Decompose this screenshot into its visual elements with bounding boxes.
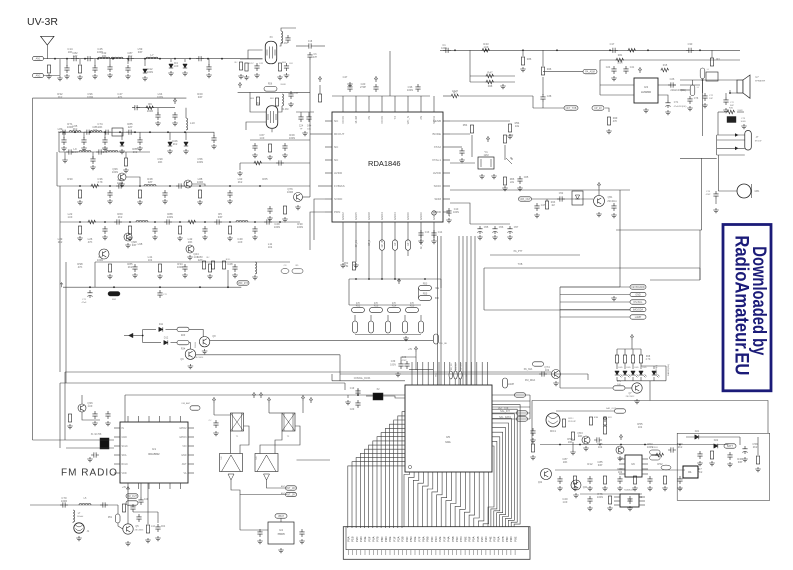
svg-text:VIO: VIO xyxy=(182,445,186,448)
svg-text:10K: 10K xyxy=(102,54,107,58)
svg-text:ANT: ANT xyxy=(182,463,187,466)
svg-text:B0_S1: B0_S1 xyxy=(451,363,453,370)
svg-text:SVDD: SVDD xyxy=(334,197,343,201)
svg-text:CCP#: CCP# xyxy=(380,116,384,124)
svg-text:21.4M: 21.4M xyxy=(282,108,289,111)
svg-text:2K2: 2K2 xyxy=(128,265,133,269)
svg-text:KEYBOARD: KEYBOARD xyxy=(631,286,645,289)
svg-text:102: 102 xyxy=(618,470,623,474)
svg-text:U5: U5 xyxy=(446,435,450,439)
svg-text:100R: 100R xyxy=(97,258,103,262)
svg-text:FM_ANT: FM_ANT xyxy=(182,402,191,405)
svg-text:33P: 33P xyxy=(218,215,223,219)
svg-text:47K: 47K xyxy=(88,240,93,244)
svg-text:C24: C24 xyxy=(299,126,304,128)
svg-text:ANT_1FO: ANT_1FO xyxy=(286,487,297,490)
svg-text:18.4M: 18.4M xyxy=(354,115,358,123)
svg-text:100N: 100N xyxy=(441,47,447,50)
svg-text:CP_2V: CP_2V xyxy=(594,107,602,110)
svg-text:1UF: 1UF xyxy=(68,215,73,219)
svg-text:R1B: R1B xyxy=(594,417,599,419)
svg-text:100N: 100N xyxy=(147,70,153,74)
svg-text:1UF: 1UF xyxy=(88,404,93,408)
svg-text:SDA: SDA xyxy=(122,454,127,457)
svg-text:270P: 270P xyxy=(360,85,366,89)
svg-text:XTA2: XTA2 xyxy=(434,145,442,149)
svg-text:1UF: 1UF xyxy=(174,64,179,68)
svg-text:R#57: R#57 xyxy=(248,63,254,65)
svg-text:100N: 100N xyxy=(274,225,280,229)
svg-text:PA_30A: PA_30A xyxy=(524,368,533,371)
svg-text:VBAT: VBAT xyxy=(278,515,285,518)
svg-text:L10: L10 xyxy=(190,121,195,125)
svg-text:S9014: S9014 xyxy=(195,341,197,348)
svg-text:2SC4111: 2SC4111 xyxy=(607,201,617,203)
svg-text:VET_TX#: VET_TX# xyxy=(498,407,509,410)
svg-text:FVBIAS: FVBIAS xyxy=(334,184,345,188)
svg-text:PEL_BK: PEL_BK xyxy=(439,343,448,345)
svg-text:CCP#: CCP# xyxy=(341,116,345,124)
svg-text:C13: C13 xyxy=(425,231,430,234)
svg-text:10P: 10P xyxy=(709,98,713,100)
svg-text:RDA1846: RDA1846 xyxy=(368,159,401,168)
svg-text:RCLK: RCLK xyxy=(122,463,129,466)
svg-text:SAL_DATA: SAL_DATA xyxy=(499,416,511,419)
svg-text:K1: K1 xyxy=(688,470,692,474)
svg-text:100K: 100K xyxy=(617,62,623,65)
svg-text:R51: R51 xyxy=(108,517,113,519)
svg-text:1.5k: 1.5k xyxy=(344,265,349,268)
svg-text:R46: R46 xyxy=(547,68,552,71)
svg-text:GND2: GND2 xyxy=(341,212,345,220)
svg-text:C20: C20 xyxy=(350,408,355,411)
svg-text:C65: C65 xyxy=(524,176,529,179)
svg-text:47K: 47K xyxy=(374,303,379,305)
svg-text:2N: 2N xyxy=(367,116,371,120)
svg-text:Q22: Q22 xyxy=(538,482,543,484)
svg-text:C64: C64 xyxy=(161,526,166,528)
svg-text:U7: U7 xyxy=(755,75,759,79)
svg-text:68K: 68K xyxy=(435,297,440,300)
svg-text:X1 32.768: X1 32.768 xyxy=(91,434,102,436)
svg-text:LED: LED xyxy=(634,367,639,369)
svg-text:2K2: 2K2 xyxy=(698,470,703,474)
svg-text:R7#: R7# xyxy=(617,381,622,383)
svg-text:100R: 100R xyxy=(87,95,93,99)
svg-text:LAMP: LAMP xyxy=(635,316,642,319)
svg-text:RADIO(GN): RADIO(GN) xyxy=(667,364,670,376)
svg-text:FM RADIO: FM RADIO xyxy=(61,468,118,479)
svg-text:102: 102 xyxy=(93,128,98,132)
svg-text:D22: D22 xyxy=(714,439,719,442)
svg-text:B1_S1: B1_S1 xyxy=(456,363,458,370)
svg-text:RadioAmateur.EU: RadioAmateur.EU xyxy=(731,235,752,375)
svg-text:102: 102 xyxy=(638,425,643,429)
svg-text:R8: R8 xyxy=(678,487,682,491)
svg-text:2K2: 2K2 xyxy=(58,95,63,99)
svg-text:100R: 100R xyxy=(177,265,183,269)
svg-text:R15: R15 xyxy=(663,64,668,67)
svg-text:100R: 100R xyxy=(287,190,293,194)
svg-text:2K2: 2K2 xyxy=(238,180,243,184)
svg-text:10K: 10K xyxy=(98,125,103,129)
svg-text:100R: 100R xyxy=(197,180,203,184)
svg-text:AVDD: AVDD xyxy=(334,171,343,175)
svg-text:2N: 2N xyxy=(419,116,423,120)
svg-text:GPIO3: GPIO3 xyxy=(179,436,187,439)
svg-text:GND: GND xyxy=(181,454,187,457)
svg-text:R53: R53 xyxy=(423,283,428,286)
svg-text:47K: 47K xyxy=(356,303,361,305)
svg-text:LED: LED xyxy=(642,367,647,369)
svg-text:100N: 100N xyxy=(167,215,173,219)
svg-text:GND5: GND5 xyxy=(354,212,358,220)
svg-text:SA1_OUT: SA1_OUT xyxy=(606,407,617,410)
svg-text:GND3: GND3 xyxy=(393,212,397,220)
svg-text:U3: U3 xyxy=(644,85,648,89)
svg-text:100N: 100N xyxy=(97,50,103,54)
svg-text:R12: R12 xyxy=(587,462,593,466)
svg-text:XTAL1: XTAL1 xyxy=(432,158,441,162)
svg-text:FM_OUT: FM_OUT xyxy=(127,495,137,498)
svg-text:21.4M: 21.4M xyxy=(281,42,288,45)
svg-text:R47: R47 xyxy=(487,71,493,75)
svg-text:33P: 33P xyxy=(738,460,743,464)
svg-text:12M: 12M xyxy=(483,153,488,157)
svg-text:U1: U1 xyxy=(152,447,156,451)
svg-text:BATT: BATT xyxy=(727,445,733,448)
svg-text:RDA5802: RDA5802 xyxy=(148,452,160,456)
svg-text:VDD: VDD xyxy=(122,472,127,475)
svg-text:SCLK: SCLK xyxy=(122,445,129,448)
svg-text:1UF: 1UF xyxy=(238,240,243,244)
svg-text:470P: 470P xyxy=(706,194,711,196)
svg-text:R21#: R21# xyxy=(568,418,574,420)
svg-text:P0E: P0E xyxy=(513,536,517,541)
svg-text:AVDD: AVDD xyxy=(433,171,442,175)
svg-text:22P: 22P xyxy=(128,125,133,129)
svg-text:R56: R56 xyxy=(268,84,273,86)
svg-text:TDA2822M: TDA2822M xyxy=(624,489,635,492)
svg-text:GND4: GND4 xyxy=(380,212,384,220)
svg-text:100uH: 100uH xyxy=(77,516,84,518)
svg-text:WC_N: WC_N xyxy=(406,116,410,124)
svg-text:+3V: +3V xyxy=(408,349,413,351)
svg-text:L7: L7 xyxy=(150,53,154,57)
svg-text:R65: R65 xyxy=(262,177,268,181)
svg-text:2K2: 2K2 xyxy=(678,445,683,449)
svg-text:PA_PTT: PA_PTT xyxy=(514,250,523,253)
svg-text:U6: U6 xyxy=(631,462,635,466)
svg-text:C18: C18 xyxy=(308,41,313,43)
svg-text:78M05: 78M05 xyxy=(277,533,285,536)
svg-text:Q21: Q21 xyxy=(583,486,588,489)
svg-text:10K: 10K xyxy=(578,434,583,438)
svg-text:R6: R6 xyxy=(148,102,152,106)
svg-text:102: 102 xyxy=(598,445,603,449)
svg-text:10K: 10K xyxy=(68,50,73,54)
svg-text:C24: C24 xyxy=(606,66,611,69)
svg-text:AN1: AN1 xyxy=(36,58,41,61)
svg-text:100R: 100R xyxy=(61,499,67,503)
svg-text:R48: R48 xyxy=(646,356,651,358)
svg-text:2K2: 2K2 xyxy=(133,150,138,154)
svg-text:22P: 22P xyxy=(148,180,153,184)
svg-text:C41: C41 xyxy=(630,66,635,69)
svg-text:D11: D11 xyxy=(159,323,164,326)
svg-text:2K2: 2K2 xyxy=(753,445,758,449)
svg-text:R36: R36 xyxy=(527,58,532,61)
svg-text:D12: D12 xyxy=(164,337,169,340)
svg-text:R31: R31 xyxy=(618,54,623,57)
svg-text:C19: C19 xyxy=(350,387,355,390)
svg-text:R52: R52 xyxy=(657,462,663,466)
svg-text:2SC2412: 2SC2412 xyxy=(626,396,636,398)
svg-text:100N: 100N xyxy=(157,95,163,99)
svg-text:LED: LED xyxy=(626,367,631,369)
svg-text:R3#: R3# xyxy=(181,349,186,351)
svg-text:C33: C33 xyxy=(688,42,693,46)
svg-text:100N: 100N xyxy=(647,445,653,449)
svg-text:IPL/SCL: IPL/SCL xyxy=(634,301,644,304)
svg-text:VRF_2TX: VRF_2TX xyxy=(238,282,249,285)
svg-text:SAL_INT: SAL_INT xyxy=(500,410,510,413)
svg-text:C52: C52 xyxy=(559,192,564,195)
svg-text:22P: 22P xyxy=(73,54,78,58)
svg-text:GND9: GND9 xyxy=(432,212,436,220)
svg-text:PICKUP: PICKUP xyxy=(568,421,576,423)
svg-text:MIC1: MIC1 xyxy=(550,430,557,433)
svg-text:33P: 33P xyxy=(138,50,143,54)
svg-text:1M: 1M xyxy=(551,204,554,207)
svg-text:LAMP: LAMP xyxy=(508,383,515,386)
svg-text:Y2: Y2 xyxy=(393,116,397,120)
svg-text:GND0: GND0 xyxy=(406,212,410,220)
svg-text:SPEAKER: SPEAKER xyxy=(755,80,766,83)
svg-text:2SC3356: 2SC3356 xyxy=(135,530,145,532)
svg-text:SDI#: SDI# xyxy=(434,197,441,201)
svg-text:2K2: 2K2 xyxy=(173,142,178,146)
svg-text:R#D: R#D xyxy=(226,259,231,261)
svg-text:220uF/4V(DE): 220uF/4V(DE) xyxy=(670,89,685,92)
svg-text:100N: 100N xyxy=(407,88,413,92)
svg-text:Q51: Q51 xyxy=(608,196,613,199)
svg-text:10K: 10K xyxy=(568,440,573,444)
svg-text:2K2: 2K2 xyxy=(128,54,133,58)
svg-text:L68: L68 xyxy=(138,242,143,246)
svg-text:100N: 100N xyxy=(597,495,603,499)
svg-text:BODE: BODE xyxy=(432,132,441,136)
svg-text:47K: 47K xyxy=(613,120,618,123)
svg-text:2SC9014: 2SC9014 xyxy=(195,357,205,359)
svg-text:100N: 100N xyxy=(289,136,295,140)
svg-text:C76: C76 xyxy=(694,97,699,100)
svg-text:R55: R55 xyxy=(423,293,428,296)
svg-text:U4: U4 xyxy=(279,528,283,532)
svg-text:47K: 47K xyxy=(410,303,415,305)
svg-text:VCCA: VCCA xyxy=(432,116,436,124)
svg-text:10K: 10K xyxy=(563,460,568,464)
svg-text:C38: C38 xyxy=(547,95,552,98)
svg-text:47uF: 47uF xyxy=(82,302,88,304)
svg-text:C55: C55 xyxy=(484,226,489,229)
svg-text:102: 102 xyxy=(148,258,153,262)
svg-text:RFOUT: RFOUT xyxy=(334,132,344,136)
svg-text:VRX_OUT: VRX_OUT xyxy=(519,198,531,201)
svg-text:IMG/SDA: IMG/SDA xyxy=(633,309,644,312)
svg-text:1UF: 1UF xyxy=(563,500,568,504)
svg-text:RADIO(R): RADIO(R) xyxy=(655,365,658,375)
svg-text:C56: C56 xyxy=(499,226,504,229)
svg-text:200R: 200R xyxy=(147,109,153,113)
svg-text:33P: 33P xyxy=(198,95,203,99)
svg-text:VA: VA xyxy=(183,472,186,475)
svg-text:10K: 10K xyxy=(158,160,163,164)
svg-text:2K2: 2K2 xyxy=(103,150,108,154)
svg-text:33P: 33P xyxy=(598,463,603,467)
svg-text:47K: 47K xyxy=(118,95,123,99)
svg-text:M#1: M#1 xyxy=(755,190,760,193)
svg-text:100N: 100N xyxy=(390,364,396,367)
svg-text:TXB: TXB xyxy=(518,263,523,266)
svg-text:UV-3R: UV-3R xyxy=(27,16,58,28)
svg-text:10K: 10K xyxy=(188,240,193,244)
svg-text:R30: R30 xyxy=(67,177,73,181)
svg-text:2K2: 2K2 xyxy=(118,215,123,219)
svg-text:GPIO2: GPIO2 xyxy=(179,427,187,430)
svg-text:4.7K: 4.7K xyxy=(97,180,103,184)
svg-text:PA_ASM: PA_ASM xyxy=(585,71,595,74)
svg-text:10k: 10k xyxy=(515,124,520,128)
svg-text:C28: C28 xyxy=(227,262,233,266)
svg-text:47uF/6V(DE): 47uF/6V(DE) xyxy=(674,106,687,108)
svg-text:C47: C47 xyxy=(343,75,348,79)
svg-text:R62: R62 xyxy=(509,134,514,137)
svg-text:R2#: R2# xyxy=(181,335,186,337)
svg-text:GND6: GND6 xyxy=(419,212,423,220)
svg-text:IN: IN xyxy=(122,427,125,430)
svg-text:47K: 47K xyxy=(78,265,83,269)
svg-text:200R: 200R xyxy=(280,84,286,86)
svg-text:100N: 100N xyxy=(741,121,746,123)
svg-text:C4#: C4# xyxy=(307,126,312,128)
svg-text:GND: GND xyxy=(635,294,641,297)
svg-text:R48: R48 xyxy=(488,85,493,88)
svg-text:100N: 100N xyxy=(297,225,303,229)
svg-text:SP_2S: SP_2S xyxy=(461,363,463,370)
svg-text:22P: 22P xyxy=(198,258,203,262)
svg-text:47K: 47K xyxy=(392,303,397,305)
svg-text:C57: C57 xyxy=(514,226,519,229)
svg-text:LM4890: LM4890 xyxy=(641,90,652,94)
svg-text:GP_1V: GP_1V xyxy=(356,240,358,248)
svg-text:GND8: GND8 xyxy=(367,212,371,220)
svg-text:SP-1W: SP-1W xyxy=(755,141,762,143)
svg-text:100N: 100N xyxy=(112,170,118,174)
svg-text:33P: 33P xyxy=(132,243,137,247)
svg-text:47uH: 47uH xyxy=(452,90,458,93)
svg-text:100N: 100N xyxy=(453,211,459,214)
svg-text:+3V: +3V xyxy=(122,487,127,489)
svg-text:C14: C14 xyxy=(438,231,443,234)
svg-text:1UF: 1UF xyxy=(260,136,265,140)
svg-text:10K: 10K xyxy=(617,384,621,386)
svg-text:1UF: 1UF xyxy=(484,45,489,49)
svg-text:PDN: PDN xyxy=(334,210,340,214)
svg-text:C71: C71 xyxy=(674,101,679,104)
svg-text:FM_RDA: FM_RDA xyxy=(525,379,536,382)
svg-text:100N: 100N xyxy=(197,160,203,164)
svg-text:AN2: AN2 xyxy=(36,75,41,78)
svg-text:102: 102 xyxy=(638,495,643,499)
svg-text:2K2: 2K2 xyxy=(73,127,78,131)
svg-text:R54: R54 xyxy=(463,124,468,127)
svg-text:4.7K: 4.7K xyxy=(646,359,651,361)
svg-text:C17: C17 xyxy=(610,42,615,46)
svg-text:COM/AL_DATA: COM/AL_DATA xyxy=(354,377,371,380)
svg-text:ANT_1FO: ANT_1FO xyxy=(286,494,297,497)
svg-text:SDIO: SDIO xyxy=(434,184,442,188)
svg-text:100R: 100R xyxy=(72,150,78,154)
svg-text:C26: C26 xyxy=(670,77,675,81)
svg-text:470P: 470P xyxy=(401,360,407,362)
svg-text:M4A: M4A xyxy=(445,440,451,444)
svg-text:LED: LED xyxy=(618,367,623,369)
svg-text:D21: D21 xyxy=(695,430,700,433)
svg-text:100R: 100R xyxy=(67,125,73,129)
svg-text:GND: GND xyxy=(122,436,128,439)
svg-text:102: 102 xyxy=(545,368,550,372)
svg-text:OFT_TXB: OFT_TXB xyxy=(566,107,577,110)
svg-text:102: 102 xyxy=(268,245,273,249)
svg-text:47P: 47P xyxy=(313,57,318,59)
svg-text:22P: 22P xyxy=(58,130,63,134)
